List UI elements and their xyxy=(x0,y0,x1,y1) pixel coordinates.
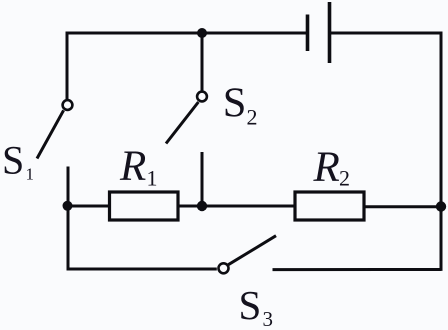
svg-text:3: 3 xyxy=(263,307,274,330)
junction node top (dot) xyxy=(197,28,207,38)
wire: left junction to R1 xyxy=(67,205,110,208)
wire: left vertical upper xyxy=(66,32,69,101)
svg-text:S: S xyxy=(2,138,24,183)
svg-text:R: R xyxy=(119,143,146,190)
wire: R2 to right junction xyxy=(364,205,441,208)
battery xyxy=(308,2,330,63)
switch S1 xyxy=(37,100,72,158)
svg-text:R: R xyxy=(313,144,340,191)
svg-text:S: S xyxy=(239,282,262,328)
junction node middle (dot) xyxy=(197,201,207,211)
wire: S3 fixed contact to bottom-right corner xyxy=(273,268,442,271)
switch S3 xyxy=(219,236,277,274)
wire: middle vertical lower xyxy=(201,152,204,206)
svg-text:1: 1 xyxy=(147,166,158,191)
wire: middle vertical upper xyxy=(201,33,204,92)
wire: left vertical lower and bottom run to S3 xyxy=(68,167,217,270)
svg-text:2: 2 xyxy=(339,166,350,191)
switch S2 xyxy=(166,92,207,144)
svg-text:S: S xyxy=(223,80,247,127)
junction node right (dot) xyxy=(436,201,446,211)
wire: right vertical xyxy=(440,32,443,271)
wire: battery to top-right corner xyxy=(331,32,442,35)
resistor R1 xyxy=(110,192,179,220)
wire: R1 to R2 xyxy=(178,205,296,208)
junction node left (dot) xyxy=(63,201,73,211)
svg-text:2: 2 xyxy=(247,105,258,130)
wire: top horizontal from left corner to battery xyxy=(66,32,306,35)
resistor R2 xyxy=(295,192,364,220)
svg-text:1: 1 xyxy=(26,165,35,184)
